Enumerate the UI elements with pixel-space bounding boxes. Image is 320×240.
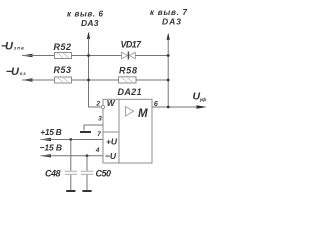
wire: output from pin 6 — [152, 106, 198, 108]
svg-text:DA3: DA3 — [81, 18, 99, 28]
svg-text:R58: R58 — [119, 65, 137, 75]
svg-text:уф: уф — [199, 96, 207, 103]
wire: -15V rail to pin 4 — [41, 155, 104, 157]
ground (common) bar at pin 3 — [80, 131, 91, 133]
input label -Uзпв — [1, 40, 24, 52]
node: junction dot output / right column — [167, 106, 170, 109]
wire: line 1 from R52 to VD17 — [72, 55, 122, 57]
svg-text:4: 4 — [95, 147, 100, 154]
resistor R58 — [119, 65, 138, 83]
op-amp DA21 — [103, 87, 152, 163]
svg-text:7: 7 — [97, 131, 101, 138]
resistor R52 — [54, 42, 72, 58]
wire: feedback column x=88.5 from arrow down to pin 2 bend — [89, 38, 102, 107]
ground bar under C48 — [66, 190, 75, 192]
capacitor C48 — [45, 140, 77, 191]
svg-text:DA21: DA21 — [118, 87, 142, 97]
node label "к выв. 6 DA3" — [67, 9, 104, 28]
node: junction dot line2 / right column — [167, 79, 170, 82]
pin 2 (inverting input) with inversion circle — [95, 101, 104, 109]
node: junction dot -15V / C50 — [86, 154, 89, 157]
svg-text:W: W — [107, 98, 116, 108]
svg-text:−15 В: −15 В — [40, 143, 63, 153]
off-page arrow to выв.6 DA3 — [87, 32, 90, 40]
wire: line 2 from R58 to right column — [136, 79, 168, 81]
wire: line 2 left segment — [22, 79, 55, 81]
svg-text:R52: R52 — [54, 42, 72, 52]
node label "к выв. 7 DA3" — [150, 8, 188, 27]
zener diode VD17 (bidirectional) — [121, 40, 142, 60]
resistor R53 — [54, 65, 72, 83]
svg-text:C50: C50 — [96, 168, 112, 178]
svg-text:DA3: DA3 — [162, 17, 181, 27]
wire: line 1 from VD17 to right column — [135, 55, 168, 57]
input arrow line 1 — [22, 54, 33, 57]
svg-text:−U: −U — [1, 40, 14, 52]
svg-text:к выв. 7: к выв. 7 — [150, 8, 188, 17]
svg-text:−U: −U — [105, 151, 117, 161]
off-page arrow to выв.7 DA3 — [167, 33, 170, 41]
node: junction dot line2 / feedback column — [87, 79, 90, 82]
capacitor C50 — [81, 156, 111, 190]
svg-text:3: 3 — [98, 116, 102, 123]
node: junction dot +15V / C48 — [69, 138, 72, 141]
svg-text:оз: оз — [20, 71, 27, 76]
svg-text:+15 В: +15 В — [40, 127, 62, 137]
wire: line 2 from R53 to R58 — [72, 79, 119, 81]
svg-text:−U: −U — [6, 66, 20, 78]
ground bar under C50 — [82, 190, 91, 192]
svg-text:+U: +U — [106, 136, 118, 146]
wire: right column x=168.2 from arrow down to output line — [167, 39, 169, 107]
supply arrow -15 — [40, 154, 51, 157]
supply arrow +15 — [40, 138, 51, 141]
output arrow — [197, 105, 207, 109]
input arrow line 2 — [22, 78, 33, 81]
svg-text:2: 2 — [95, 101, 100, 108]
input label -Uоз — [6, 66, 26, 78]
wire: line 1 left segment — [22, 55, 55, 57]
wire: +15V rail to pin 7 — [41, 139, 104, 141]
svg-text:зпв: зпв — [14, 46, 24, 51]
svg-text:VD17: VD17 — [121, 40, 142, 50]
svg-text:C48: C48 — [45, 168, 61, 178]
svg-text:R53: R53 — [54, 65, 72, 75]
node: junction dot line1 / feedback column — [87, 54, 90, 57]
wire: pin 3 to common — [84, 125, 103, 131]
output label Uуф — [193, 91, 208, 103]
node: junction dot line1 / right column — [167, 54, 170, 57]
svg-text:M: M — [138, 108, 148, 120]
